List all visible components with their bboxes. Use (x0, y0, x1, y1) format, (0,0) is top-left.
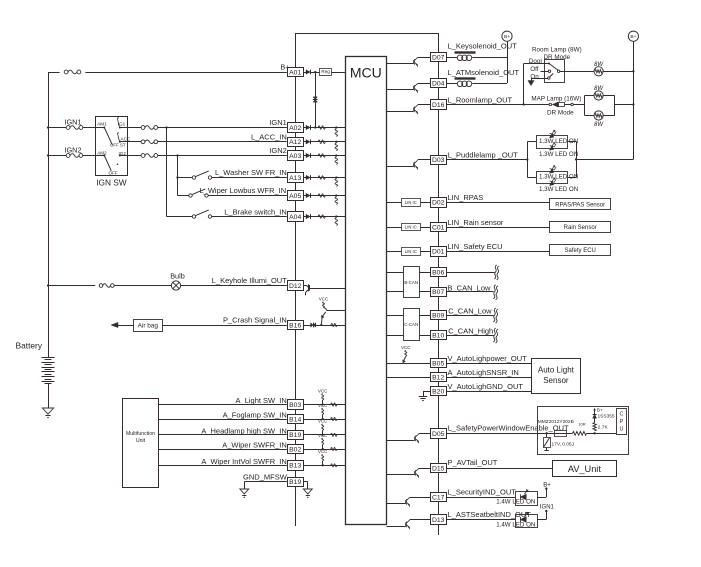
svg-text:1.3W LED ON: 1.3W LED ON (539, 186, 578, 193)
svg-text:A_Wiper SWFR_IN: A_Wiper SWFR_IN (222, 441, 287, 450)
svg-text:B03: B03 (289, 402, 301, 409)
svg-text:B13: B13 (289, 463, 301, 470)
svg-text:B16: B16 (289, 322, 301, 329)
svg-text:D05: D05 (432, 431, 445, 438)
svg-text:B20: B20 (432, 388, 444, 395)
svg-text:IGN1: IGN1 (540, 505, 555, 511)
svg-text:ACC: ACC (121, 137, 131, 142)
svg-text:D07: D07 (432, 54, 445, 61)
svg-text:B+: B+ (543, 482, 551, 488)
svg-text:8W: 8W (594, 62, 604, 68)
svg-text:Air bag: Air bag (138, 322, 159, 329)
svg-text:LIN_Safety ECU: LIN_Safety ECU (448, 242, 503, 251)
svg-text:A04: A04 (289, 214, 301, 221)
svg-text:Off: Off (530, 66, 539, 73)
svg-text:B12: B12 (432, 374, 444, 381)
svg-text:B+: B+ (504, 34, 510, 40)
svg-text:B19: B19 (289, 479, 301, 486)
svg-text:B-CAN: B-CAN (404, 280, 418, 285)
svg-text:Auto Light: Auto Light (538, 366, 575, 375)
svg-text:VCC: VCC (401, 345, 410, 350)
svg-text:C-CAN: C-CAN (404, 322, 418, 327)
svg-text:L_Keyhole Illumi_OUT: L_Keyhole Illumi_OUT (212, 276, 287, 285)
svg-text:VCC: VCC (318, 449, 327, 454)
svg-text:L_SecurityIND_OUT: L_SecurityIND_OUT (448, 487, 517, 496)
svg-text:C01: C01 (432, 224, 445, 231)
svg-text:17V, 0.05J: 17V, 0.05J (552, 442, 575, 448)
svg-text:B09: B09 (432, 312, 444, 319)
svg-text:A13: A13 (289, 175, 301, 182)
svg-text:A_Light SW_IN: A_Light SW_IN (236, 396, 287, 405)
svg-text:1.3W LED ON: 1.3W LED ON (539, 151, 578, 158)
svg-text:B07: B07 (432, 289, 444, 296)
svg-text:DR Mode: DR Mode (544, 54, 571, 61)
svg-text:AV_Unit: AV_Unit (568, 464, 601, 474)
svg-text:10R: 10R (578, 421, 585, 426)
svg-text:L_Keysolenoid_OUT: L_Keysolenoid_OUT (448, 41, 518, 50)
svg-text:Door: Door (529, 58, 543, 65)
svg-text:B+: B+ (597, 407, 603, 412)
svg-text:D04: D04 (432, 80, 445, 87)
svg-text:B10: B10 (432, 332, 444, 339)
svg-text:P: P (620, 419, 624, 425)
svg-text:AM2: AM2 (97, 151, 107, 156)
svg-text:A_Headlamp high SW_IN: A_Headlamp high SW_IN (201, 426, 286, 435)
svg-text:C: C (620, 412, 624, 418)
svg-text:AM1: AM1 (97, 122, 107, 127)
svg-text:L_Brake switch_IN: L_Brake switch_IN (224, 208, 287, 217)
svg-text:Rain Sensor: Rain Sensor (564, 225, 597, 231)
svg-text:D16: D16 (432, 102, 445, 109)
svg-text:C_CAN_High: C_CAN_High (448, 327, 493, 336)
svg-text:IGN SW: IGN SW (96, 178, 127, 188)
svg-text:LIN_Rain sensor: LIN_Rain sensor (448, 218, 504, 227)
svg-text:8W: 8W (594, 86, 604, 92)
svg-text:L_Roomlamp_OUT: L_Roomlamp_OUT (448, 95, 513, 104)
svg-text:B_CAN_Low: B_CAN_Low (448, 283, 492, 292)
svg-text:V_AutoLighpower_OUT: V_AutoLighpower_OUT (448, 354, 528, 363)
svg-text:L_ACC_IN: L_ACC_IN (251, 132, 287, 141)
svg-text:D01: D01 (432, 249, 445, 256)
svg-text:LIN_RPAS: LIN_RPAS (448, 193, 484, 202)
svg-text:IGN2: IGN2 (64, 146, 81, 155)
svg-text:VCC: VCC (318, 433, 327, 438)
svg-text:Safety ECU: Safety ECU (565, 248, 596, 254)
svg-text:D12: D12 (289, 283, 302, 290)
svg-text:B19: B19 (289, 432, 301, 439)
svg-text:1.3W LED ON: 1.3W LED ON (539, 173, 578, 180)
svg-text:U: U (620, 427, 624, 433)
svg-text:L_ATMsolenoid_OUT: L_ATMsolenoid_OUT (448, 68, 520, 77)
svg-text:P_Crash Signal_IN: P_Crash Signal_IN (223, 316, 287, 325)
svg-text:1.4W LED ON: 1.4W LED ON (496, 521, 535, 528)
svg-text:A01: A01 (289, 69, 301, 76)
svg-text:B02: B02 (289, 446, 301, 453)
svg-text:D15: D15 (432, 465, 445, 472)
svg-text:VCC: VCC (318, 403, 327, 408)
svg-text:VCC: VCC (318, 419, 327, 424)
svg-text:VCC: VCC (318, 388, 327, 393)
svg-text:LIN IC: LIN IC (405, 225, 417, 230)
svg-text:V_AutoLighGND_OUT: V_AutoLighGND_OUT (448, 382, 524, 391)
svg-text:LIN IC: LIN IC (405, 200, 417, 205)
svg-text:B+: B+ (630, 34, 636, 40)
svg-text:L_Wiper Lowbus WFR_IN: L_Wiper Lowbus WFR_IN (199, 186, 286, 195)
svg-text:2.7K: 2.7K (598, 425, 609, 431)
svg-text:8W: 8W (594, 122, 604, 128)
svg-text:A02: A02 (289, 125, 301, 132)
svg-text:Bulb: Bulb (170, 272, 185, 281)
svg-text:P_AVTail_OUT: P_AVTail_OUT (448, 458, 498, 467)
svg-text:VCC: VCC (319, 297, 328, 302)
svg-text:A_Wiper IntVol SWFR_IN: A_Wiper IntVol SWFR_IN (201, 457, 286, 466)
svg-text:LIN IC: LIN IC (405, 249, 417, 254)
svg-text:1SS355: 1SS355 (598, 414, 615, 420)
svg-text:Sensor: Sensor (543, 376, 569, 385)
svg-text:Multifunction: Multifunction (126, 431, 155, 437)
svg-text:Room Lamp (8W): Room Lamp (8W) (532, 47, 582, 54)
svg-text:DR Mode: DR Mode (547, 110, 574, 117)
svg-text:Reg: Reg (321, 69, 330, 74)
svg-text:B06: B06 (432, 269, 444, 276)
svg-text:Battery: Battery (16, 340, 43, 350)
svg-text:D13: D13 (432, 517, 445, 524)
svg-text:OFF ST: OFF ST (110, 143, 126, 148)
svg-text:MAP Lamp (16W): MAP Lamp (16W) (531, 95, 581, 102)
svg-text:MCU: MCU (350, 65, 382, 81)
svg-text:L_ASTSeatbeltIND_OUT: L_ASTSeatbeltIND_OUT (448, 510, 532, 519)
svg-text:A_AutoLighSNSR_IN: A_AutoLighSNSR_IN (448, 368, 519, 377)
svg-text:D03: D03 (432, 157, 445, 164)
svg-text:A03: A03 (289, 153, 301, 160)
svg-text:D02: D02 (432, 200, 445, 207)
svg-text:A05: A05 (289, 193, 301, 200)
svg-text:IGN2: IGN2 (269, 146, 287, 155)
svg-text:1.4W LED ON: 1.4W LED ON (496, 499, 535, 506)
svg-text:L_Puddlelamp _OUT: L_Puddlelamp _OUT (448, 151, 518, 160)
svg-text:OFF: OFF (109, 171, 118, 176)
svg-text:C_CAN_Low: C_CAN_Low (448, 307, 492, 316)
svg-text:C17: C17 (432, 494, 445, 501)
svg-text:IGN1: IGN1 (269, 118, 287, 127)
svg-text:1.3W LED ON: 1.3W LED ON (539, 138, 578, 145)
svg-text:A12: A12 (289, 139, 301, 146)
svg-text:A_Foglamp SW_IN: A_Foglamp SW_IN (223, 411, 287, 420)
svg-text:IGN1: IGN1 (64, 118, 81, 127)
svg-text:RPAS/PAS Sensor: RPAS/PAS Sensor (555, 202, 605, 208)
svg-text:L_Washer SW FR_IN: L_Washer SW FR_IN (215, 168, 287, 177)
svg-text:Unit: Unit (136, 438, 146, 444)
svg-text:L_SafetyPowerWindowEnable_OUT: L_SafetyPowerWindowEnable_OUT (448, 423, 569, 432)
svg-text:B05: B05 (432, 360, 444, 367)
svg-text:B14: B14 (289, 416, 301, 423)
svg-text:GND_MFSW: GND_MFSW (243, 473, 288, 482)
